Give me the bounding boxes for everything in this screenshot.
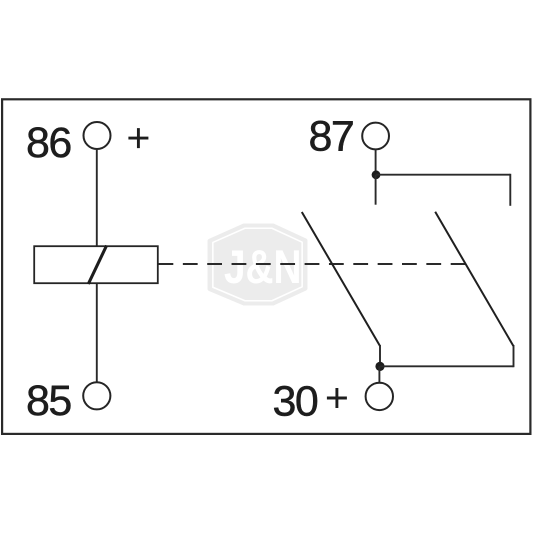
blade right lower lead [513, 345, 515, 367]
wire coil to 85 [96, 284, 98, 382]
svg-text:30: 30 [273, 377, 318, 425]
svg-text:87: 87 [309, 113, 354, 161]
wire 87 bus horizontal [376, 174, 510, 176]
wire 86 to coil [96, 149, 98, 246]
fixed contact stub left [375, 175, 377, 205]
wire 30 bus horizontal [380, 365, 514, 367]
plus sign at 86 [128, 128, 148, 148]
coil diagonal stroke [88, 246, 106, 285]
svg-text:J&N: J&N [224, 240, 302, 293]
svg-text:85: 85 [26, 377, 71, 425]
fixed contact stub right [509, 174, 511, 206]
junction dot node 30 [375, 362, 384, 371]
wire 87 circle to junction [375, 150, 377, 175]
schematic frame [2, 99, 530, 434]
plus sign at 30 [327, 388, 347, 408]
watermark badge J&N [210, 226, 306, 304]
junction dot node 87 [372, 170, 381, 179]
terminal circle 85 [83, 382, 110, 409]
dashed actuating link from coil to contact [159, 263, 466, 265]
blade left lower lead [379, 345, 381, 366]
switch blade left (movable contact) [302, 212, 380, 346]
terminal circle 87 [362, 123, 389, 150]
terminal circle 30 [366, 383, 393, 410]
svg-text:86: 86 [26, 119, 71, 167]
relay coil K1 box [34, 246, 158, 283]
switch blade right (movable contact) [435, 212, 513, 346]
wire junction to 30 circle [378, 366, 380, 383]
terminal circle 86 [84, 122, 111, 149]
